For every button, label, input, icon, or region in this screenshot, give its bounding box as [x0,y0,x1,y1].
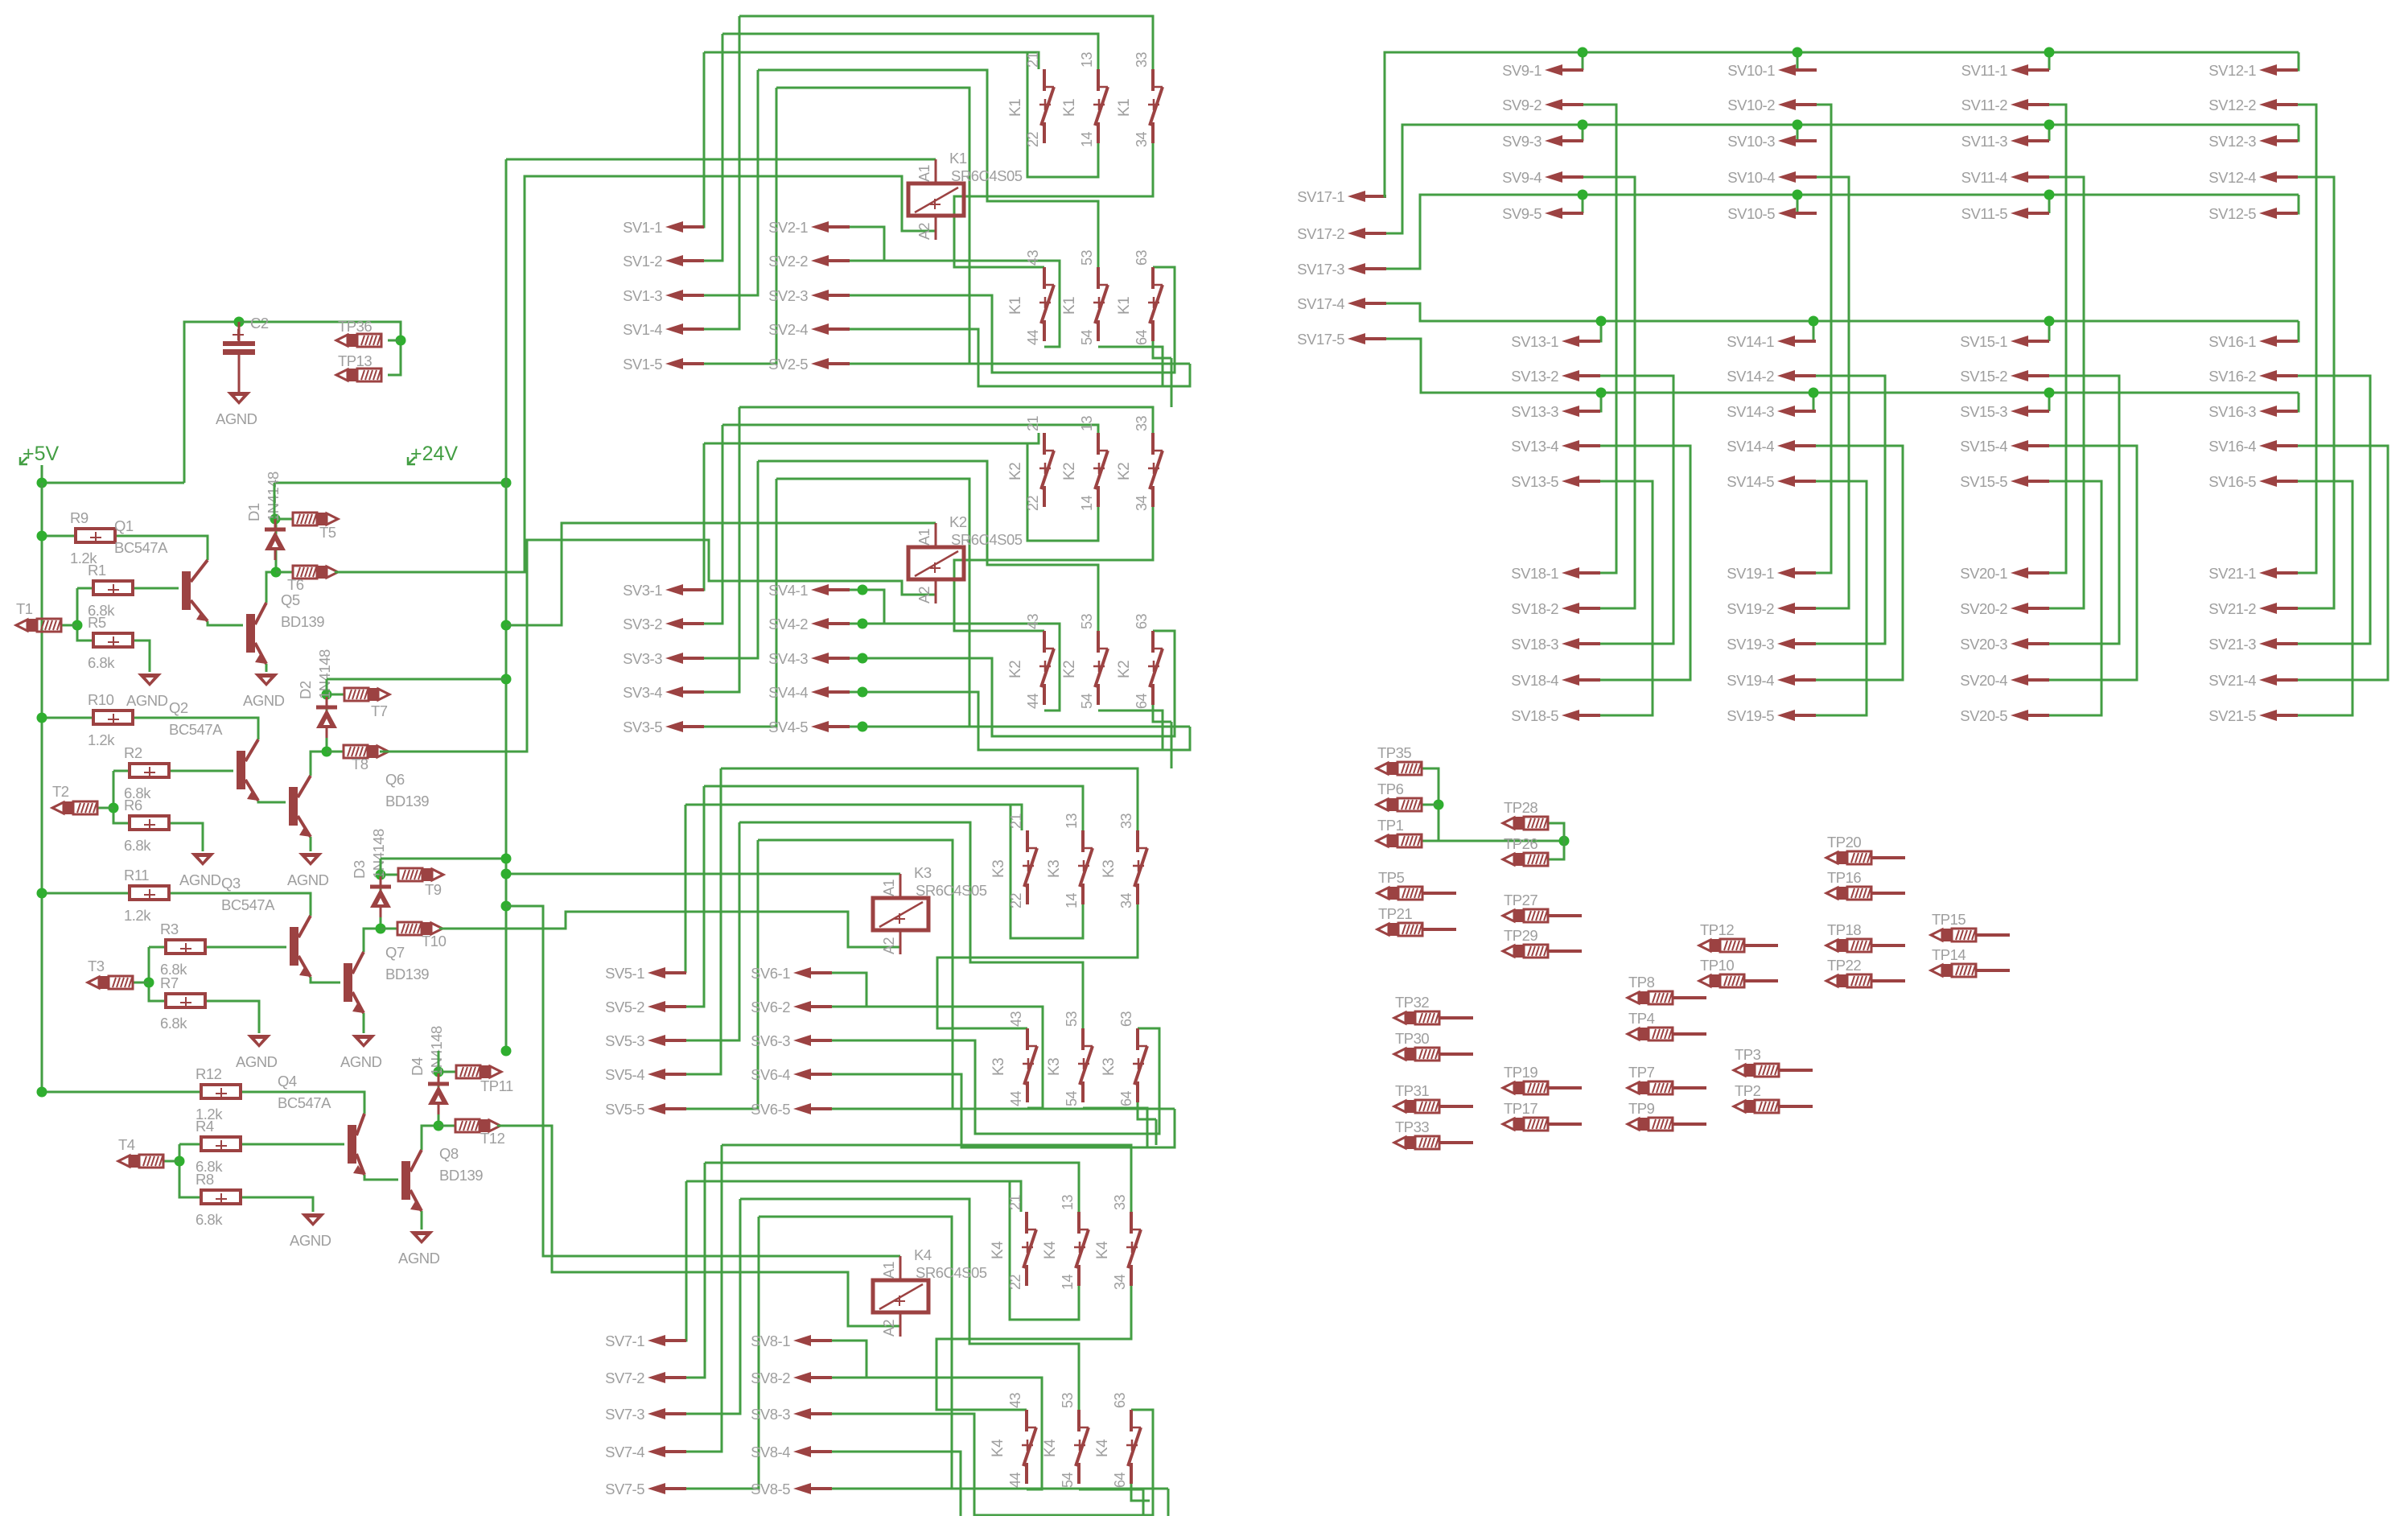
svg-text:R2: R2 [124,744,142,761]
connector pin SV15-1 [2011,336,2049,347]
ground AGND [298,853,323,866]
svg-text:34: 34 [1118,892,1134,908]
relay contact K3 pins 63/64 [1133,1028,1147,1102]
svg-text:K4: K4 [1042,1439,1059,1457]
wire SV1-4 riser [703,16,739,329]
wire bundle C K3 [685,805,1022,830]
junction SV11-5 bus3 [2044,190,2055,200]
resistor R11 [130,886,169,900]
connector pin SV6-3 [793,1035,832,1046]
wire R5 to ground [133,641,150,672]
svg-text:TP11: TP11 [480,1077,513,1094]
wire SV8-2 link [832,1378,1042,1489]
svg-text:TP6: TP6 [1377,781,1404,797]
wire SV3-2 riser [703,425,722,624]
svg-text:SV17-3: SV17-3 [1297,261,1344,278]
svg-text:21: 21 [1007,1194,1023,1210]
test point T5 [293,513,338,525]
wire SV6-5 link [832,1108,1175,1110]
connector pin SV2-4 [811,323,850,335]
svg-text:K3: K3 [1101,860,1118,878]
connector pin SV20-4 [2011,674,2049,686]
svg-text:BC547A: BC547A [169,721,223,738]
svg-text:SV14-5: SV14-5 [1727,473,1774,490]
svg-text:6.8k: 6.8k [160,1015,187,1032]
svg-text:SV21-1: SV21-1 [2208,565,2256,582]
relay contact K2 pins 43/44 [1039,631,1054,705]
wire Q2 emitter to Q6 base [258,801,286,802]
junction T9 [376,870,386,880]
svg-text:SV7-4: SV7-4 [605,1444,644,1460]
junction at SV4-4 [858,687,868,698]
wire SV7-2 riser [685,1163,705,1378]
relay contact K3 pins 33/34 [1133,830,1147,904]
svg-text:SV8-3: SV8-3 [751,1406,790,1423]
connector pin SV14-4 [1777,440,1816,451]
ground AGND [410,1231,434,1244]
wire bundle B K2 [722,425,1098,433]
svg-text:BC547A: BC547A [221,896,275,913]
relay contact K2 pins 33/34 [1148,433,1163,507]
connector pin SV8-4 [793,1446,832,1457]
svg-text:SV19-1: SV19-1 [1727,565,1774,582]
svg-text:BC547A: BC547A [278,1094,331,1111]
connector pin SV3-2 [665,618,704,629]
junction at SV4-1 [858,585,868,595]
svg-text:BD139: BD139 [385,966,429,982]
junction SV10-5 bus3 [1793,190,1803,200]
test point TP7 [1628,1081,1673,1094]
wire bus5 from SV17-5 [1386,339,2299,393]
wire SV1-5 riser [703,88,776,364]
svg-text:SV16-4: SV16-4 [2208,438,2256,455]
resistor R5 [93,633,133,648]
wire SV15-1 riser [2048,321,2051,341]
svg-text:D3: D3 [351,860,368,879]
wire TP29 stub [1548,949,1582,953]
wire K1 contact 54 hook [1098,347,1163,386]
svg-text:SV15-5: SV15-5 [1960,473,2007,490]
relay contact K4 pins 63/64 [1126,1410,1141,1484]
test point TP3 [1734,1064,1779,1077]
svg-text:TP9: TP9 [1628,1100,1655,1117]
relay contact K4 pins 53/54 [1074,1410,1089,1484]
junction T5 [270,514,281,525]
wire T vertical R6 [113,771,129,823]
svg-text:SV8-4: SV8-4 [751,1444,790,1460]
svg-text:SV18-5: SV18-5 [1511,707,1558,724]
svg-text:SV17-2: SV17-2 [1297,225,1344,242]
diode D2 [316,697,337,738]
svg-text:6.8k: 6.8k [124,837,151,854]
svg-text:SV9-5: SV9-5 [1502,205,1542,222]
test point TP35 [1377,762,1422,775]
svg-text:R11: R11 [124,867,149,884]
wire T8 net to K2 A2 [380,540,936,752]
wire SV12-1 riser [2298,52,2299,70]
wire T to R3 [149,946,165,949]
wire TP19 stub [1548,1086,1582,1090]
svg-text:22: 22 [1008,892,1024,908]
svg-text:K1: K1 [1116,99,1133,117]
connector pin SV17-1 [1348,191,1386,202]
junction T8 [322,747,332,757]
svg-text:R4: R4 [196,1118,214,1135]
svg-text:13: 13 [1079,51,1095,68]
svg-text:34: 34 [1134,131,1150,147]
svg-text:D1: D1 [245,503,262,521]
connector pin SV21-2 [2259,603,2298,614]
wire SV8-4 link [832,1452,1168,1520]
wire SV5-2 riser [685,786,704,1007]
wire SV6-4 link [832,1074,1175,1147]
test point TP13 [336,369,381,381]
svg-text:AGND: AGND [216,410,257,427]
wire T10 net to K3 A2 [439,912,900,947]
svg-text:D2: D2 [297,681,314,699]
wire K3 contact 63 hook [1138,1102,1156,1119]
svg-text:SV6-2: SV6-2 [751,999,790,1015]
wire SV3-3 riser [703,461,758,658]
svg-text:AGND: AGND [290,1232,331,1249]
wire TP31 stub [1439,1105,1473,1108]
wire SV8-5 link [832,1488,1168,1490]
wire SV2-5 link [850,363,1190,365]
svg-text:14: 14 [1064,892,1080,908]
svg-text:SV20-4: SV20-4 [1960,672,2007,689]
wire SV3-5 riser [703,479,776,727]
svg-text:K1: K1 [1116,297,1133,315]
svg-text:SV13-2: SV13-2 [1511,368,1558,385]
test point T1 [16,619,61,632]
wire T8 stub [327,751,344,753]
wire SV4-5 link [850,726,1190,728]
wire SV2-1 link [850,227,884,261]
junction SV9-3 bus2 [1578,120,1588,130]
test point TP19 [1503,1081,1548,1094]
junction SV9-5 bus3 [1578,190,1588,200]
wire Q8 collector to T12 node [422,1126,438,1150]
svg-text:T8: T8 [352,756,368,772]
relay contact K1 pins 33/34 [1148,69,1163,143]
svg-text:SV12-2: SV12-2 [2208,97,2256,113]
connector pin SV21-1 [2259,567,2298,579]
svg-text:SV11-3: SV11-3 [1961,133,2008,150]
svg-text:SV14-4: SV14-4 [1727,438,1774,455]
supply +24V [408,443,458,465]
wire K4 contact 14 hook [1010,1181,1079,1320]
svg-text:53: 53 [1079,249,1095,266]
svg-text:Q6: Q6 [385,771,405,788]
connector pin SV1-3 [665,290,704,301]
connector pin SV1-2 [665,255,704,266]
wire Q1 emitter to Q5 base [208,621,243,625]
connector pin SV5-5 [648,1103,686,1114]
wire SV15-2 to SV20-3 [2049,376,2119,644]
wire Q5 collector to T6 node [266,572,276,603]
test point TP16 [1826,887,1871,900]
wire bundle E K2 to SV4-5 [776,479,969,727]
wire D2 node up [326,679,328,694]
svg-text:44: 44 [1008,1090,1024,1106]
test point TP1 [1377,834,1422,847]
wire +24V to K4 A1 [506,906,900,1256]
svg-text:SV15-3: SV15-3 [1960,403,2007,420]
wire T9 stub [381,874,398,876]
svg-text:SV10-4: SV10-4 [1727,169,1775,186]
wire cascade K2 [1171,722,1173,768]
svg-text:TP29: TP29 [1504,927,1537,944]
wire +24V trunk vertical [505,159,508,1051]
wire SV3-4 riser [703,407,739,692]
wire TP16 stub [1871,892,1905,895]
connector pin SV2-1 [811,221,850,233]
test point TP11 [456,1065,501,1078]
svg-text:33: 33 [1118,813,1134,829]
wire bundle A K2 [739,407,1153,433]
svg-text:T6: T6 [287,576,304,593]
wire SV14-5 to SV19-5 [1816,481,1867,715]
wire bundle D K1 [758,70,1098,267]
wire T vertical R5 [77,588,93,641]
svg-text:R5: R5 [88,614,106,631]
connector pin SV15-5 [2011,476,2049,487]
svg-text:34: 34 [1134,495,1150,511]
wire K4 contact 34 link [936,1285,1131,1410]
test point TP17 [1503,1118,1548,1131]
svg-text:K2: K2 [1007,463,1024,480]
svg-text:SR6C4S05: SR6C4S05 [916,882,987,899]
svg-text:T1: T1 [16,600,33,617]
wire +24V to K1 A1 [506,159,936,161]
svg-text:Q1: Q1 [114,517,134,534]
wire SV14-2 to SV19-3 [1816,376,1885,644]
relay contact K1 pins 53/54 [1093,267,1108,341]
wire D3 node up [380,859,382,875]
svg-text:22: 22 [1025,131,1041,147]
wire SV10-5 riser [1797,195,1817,213]
svg-text:14: 14 [1079,495,1095,511]
ground AGND [191,853,215,866]
svg-text:SV17-1: SV17-1 [1297,188,1344,205]
wire SV10-3 riser [1797,125,1817,141]
test point TP15 [1931,929,1976,941]
junction SV15-1 bus4 [2044,316,2055,327]
ground AGND [352,1035,376,1048]
resistor R1 [93,581,133,595]
svg-text:64: 64 [1118,1090,1134,1106]
connector pin SV9-5 [1545,208,1583,219]
wire TP4 stub [1673,1032,1706,1036]
junction TP36 [396,336,406,346]
connector pin SV8-2 [793,1372,832,1383]
svg-text:SV7-1: SV7-1 [605,1333,644,1349]
wire SV12-3 riser [2298,125,2299,141]
wire SV7-1 riser [685,1181,686,1341]
wire SV4-2 link [850,624,1060,711]
wire bundle D K4 [740,1199,1079,1410]
svg-text:43: 43 [1025,613,1041,629]
svg-text:22: 22 [1007,1274,1023,1290]
connector pin SV21-4 [2259,674,2298,686]
wire SV11-4 to SV20-2 [2049,177,2084,608]
svg-text:SV14-1: SV14-1 [1727,333,1774,350]
resistor R7 [166,994,205,1008]
svg-text:SV2-5: SV2-5 [768,356,808,373]
svg-text:44: 44 [1007,1472,1023,1488]
connector pin SV17-3 [1348,263,1386,274]
svg-text:T2: T2 [52,783,69,800]
svg-text:+5V: +5V [23,443,60,465]
svg-text:TP32: TP32 [1395,994,1429,1011]
svg-text:C2: C2 [250,315,269,332]
wire bundle B K3 [704,786,1083,830]
svg-text:54: 54 [1064,1090,1080,1106]
connector pin SV6-5 [793,1103,832,1114]
test point TP9 [1628,1118,1673,1131]
svg-text:K1: K1 [1061,99,1078,117]
relay contact K1 pins 21/22 [1039,69,1054,143]
connector pin SV8-3 [793,1408,832,1419]
wire TP14 stub [1976,969,2010,972]
svg-text:TP5: TP5 [1378,869,1405,886]
connector pin SV16-1 [2259,336,2298,347]
svg-text:SV12-4: SV12-4 [2208,169,2256,186]
wire C2 to TP13 [239,322,401,375]
junction +24V K4 feed [501,901,512,912]
wire Q5 emitter to ground [265,664,268,672]
wire SV14-3 riser [1813,393,1816,411]
svg-text:13: 13 [1060,1194,1076,1210]
svg-text:SV5-5: SV5-5 [605,1101,644,1118]
svg-text:53: 53 [1060,1392,1076,1408]
svg-text:63: 63 [1118,1011,1134,1027]
svg-text:K1: K1 [949,150,967,167]
svg-text:R8: R8 [196,1171,214,1188]
diode D3 [370,876,391,917]
svg-text:TP19: TP19 [1504,1064,1537,1081]
svg-text:TP7: TP7 [1628,1064,1655,1081]
svg-text:A1: A1 [881,1261,897,1279]
svg-text:R10: R10 [88,691,114,708]
wire bundle B K1 [722,34,1098,69]
connector pin SV12-4 [2259,171,2298,183]
relay contact K3 pins 53/54 [1078,1028,1093,1102]
wire SV12-2 to SV21-1 [2298,105,2316,573]
svg-text:SV20-5: SV20-5 [1960,707,2007,724]
svg-text:SV11-5: SV11-5 [1961,205,2008,222]
connector pin SV2-3 [811,290,850,301]
connector pin SV19-3 [1777,638,1816,649]
junction SV10-3 bus2 [1793,120,1803,130]
wire T to R4 [179,1143,200,1146]
connector pin SV19-4 [1777,674,1816,686]
wire K1 contact 14 hook [1027,52,1098,177]
svg-text:SV16-2: SV16-2 [2208,368,2256,385]
wire T vertical R8 [179,1144,200,1197]
svg-text:TP4: TP4 [1628,1010,1655,1027]
svg-text:A1: A1 [916,528,932,546]
connector pin SV11-5 [2011,208,2049,219]
wire bus3 from SV17-3 [1386,195,2299,269]
relay contact K2 pins 13/14 [1093,433,1108,507]
svg-text:SV1-2: SV1-2 [623,253,662,270]
svg-text:TP3: TP3 [1735,1046,1761,1063]
svg-text:SV1-3: SV1-3 [623,287,662,304]
svg-text:43: 43 [1008,1011,1024,1027]
wire T5 stub [275,518,293,521]
wire SV15-5 to SV20-5 [2049,481,2101,715]
connector pin SV19-1 [1777,567,1816,579]
wire SV11-1 riser [2048,52,2051,70]
wire C2 to ground [238,370,241,393]
svg-text:SV1-1: SV1-1 [623,219,662,236]
test point T6 [293,566,338,579]
wire bundle B K4 [705,1163,1079,1212]
wire TP35 to TP6/TP1 [1422,768,1439,841]
junction at SV4-2 [858,619,868,629]
connector pin SV9-1 [1545,64,1583,76]
wire R3 to Q3 base [205,946,286,949]
svg-text:SR6C4S05: SR6C4S05 [951,531,1023,548]
test point TP8 [1628,991,1673,1004]
connector pin SV13-1 [1562,336,1600,347]
svg-text:SV15-2: SV15-2 [1960,368,2007,385]
svg-text:Q2: Q2 [169,699,188,716]
connector pin SV17-5 [1348,333,1386,344]
wire K2 contact 54 hook [1098,711,1163,750]
svg-text:SV19-2: SV19-2 [1727,600,1774,617]
svg-text:SV5-2: SV5-2 [605,999,644,1015]
connector pin SV12-1 [2259,64,2298,76]
svg-text:SV13-1: SV13-1 [1511,333,1558,350]
connector pin SV14-3 [1777,406,1816,417]
connector pin SV9-2 [1545,99,1583,110]
wire SV12-5 riser [2298,195,2299,213]
svg-text:SV14-2: SV14-2 [1727,368,1774,385]
wire SV11-2 to SV20-1 [2049,105,2066,573]
svg-text:1.2k: 1.2k [88,731,115,748]
resistor R3 [166,940,205,954]
test point TP14 [1931,964,1976,977]
svg-text:AGND: AGND [179,871,221,888]
wire R1 to Q1 base [133,587,179,590]
wire SV13-3 riser [1600,393,1601,411]
svg-text:44: 44 [1025,329,1041,345]
junction C2 top [234,317,245,327]
relay contact K1 pins 43/44 [1039,267,1054,341]
svg-text:TP18: TP18 [1827,921,1861,938]
wire Q6 emitter to ground [310,837,312,851]
wire SV13-4 to SV18-4 [1600,446,1690,680]
svg-text:33: 33 [1134,415,1150,431]
wire bundle E K4 to SV8-5 [759,1217,952,1489]
svg-text:K2: K2 [1007,661,1024,678]
svg-text:K1: K1 [1061,297,1078,315]
relay contact K4 pins 33/34 [1126,1212,1141,1286]
connector pin SV2-5 [811,358,850,369]
connector pin SV11-4 [2011,171,2049,183]
junction TP26 node [1559,836,1570,847]
junction rail R9 [37,531,47,542]
svg-text:SV19-5: SV19-5 [1727,707,1774,724]
wire K4 contact 63 hook [1131,1484,1150,1501]
wire bundle C K1 [704,52,1039,69]
svg-text:TP35: TP35 [1377,744,1411,761]
svg-text:Q3: Q3 [221,875,241,892]
svg-text:SV12-3: SV12-3 [2208,133,2256,150]
wire SV2-3 link [850,267,1175,373]
